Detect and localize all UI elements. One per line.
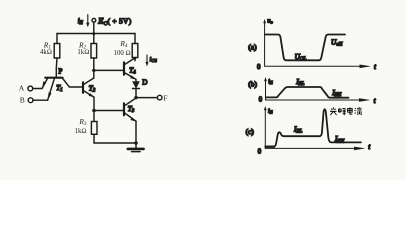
svg-text:iE: iE: [78, 17, 83, 26]
wire to T3 base: [94, 110, 123, 112]
svg-text:IEH: IEH: [331, 89, 341, 98]
svg-text:1kΩ: 1kΩ: [77, 49, 89, 56]
node EC supply terminal: [92, 18, 96, 33]
svg-text:A: A: [19, 84, 25, 93]
diode D: [133, 79, 140, 97]
transistor T1 multi-emitter: [42, 78, 69, 101]
svg-text:T2: T2: [89, 85, 96, 94]
resistor R2: [91, 34, 97, 71]
label R3 value 1k: [75, 117, 87, 135]
axis y panel a: [263, 19, 266, 66]
wire T2 emitter column: [93, 97, 95, 110]
input terminal B: [20, 96, 48, 105]
wire T3 emitter to ground: [135, 121, 137, 143]
svg-text:D: D: [142, 79, 147, 87]
svg-text:P: P: [58, 67, 62, 75]
svg-text:B: B: [20, 96, 25, 105]
svg-text:0: 0: [259, 97, 263, 104]
resistor R1: [54, 34, 60, 78]
svg-text:IEH: IEH: [334, 135, 344, 144]
char dian: [348, 107, 353, 114]
svg-text:R4: R4: [119, 39, 128, 49]
current arrow iC4: [145, 55, 148, 67]
wire EC terminal to rail: [93, 22, 95, 33]
svg-text:iE: iE: [268, 107, 273, 114]
transistor T4: [124, 58, 136, 80]
svg-text:0: 0: [258, 148, 262, 155]
svg-text:IEL: IEL: [295, 78, 304, 87]
initial low segment thick: [266, 145, 274, 147]
svg-text:T1: T1: [56, 84, 62, 93]
axis x panel c: [265, 147, 365, 151]
svg-text:R3: R3: [78, 117, 87, 127]
output terminal F: [157, 94, 167, 103]
axis x panel a: [265, 65, 371, 69]
svg-text:F: F: [163, 94, 167, 103]
junction rail-R2-EC: [92, 32, 95, 35]
label R2 value 1k: [77, 40, 89, 56]
svg-text:0: 0: [257, 64, 261, 71]
svg-text:100 Ω: 100 Ω: [114, 50, 131, 57]
svg-text:EC( + 5V): EC( + 5V): [97, 16, 132, 27]
input terminal A: [19, 84, 42, 93]
char feng: [339, 108, 346, 115]
char jian: [330, 107, 337, 115]
axis y panel c: [264, 106, 267, 148]
junction ground node: [134, 141, 138, 145]
svg-text:1kΩ: 1kΩ: [75, 128, 87, 135]
svg-text:(b): (b): [248, 79, 257, 88]
svg-text:T3: T3: [128, 105, 135, 114]
waveform iE curve panel b: [266, 87, 349, 98]
svg-text:UOL: UOL: [295, 53, 307, 62]
wire T2 collector column: [93, 70, 95, 78]
junction T2 emitter R3 T3 base: [92, 109, 96, 113]
current arrow iE: [86, 15, 89, 28]
label spike current chinese text: [330, 107, 362, 115]
char liu: [355, 107, 362, 115]
transistor T2: [83, 78, 94, 97]
svg-text:t: t: [374, 98, 377, 105]
waveform uo curve: [265, 35, 345, 61]
svg-text:t: t: [368, 144, 371, 151]
resistor R3: [91, 111, 97, 144]
svg-text:iC4: iC4: [150, 56, 158, 63]
ground: [128, 143, 144, 152]
transistor T3: [124, 98, 136, 122]
waveform iE curve panel c with spike: [266, 109, 361, 146]
axis x panel b: [266, 98, 371, 102]
svg-text:UoH: UoH: [331, 38, 343, 47]
svg-text:uo: uo: [267, 18, 273, 25]
label R4 value 100: [114, 39, 131, 57]
svg-text:t: t: [374, 64, 377, 71]
svg-text:iE: iE: [268, 78, 273, 85]
junction R2 T2 collector T4 base: [92, 69, 95, 72]
resistor R4: [132, 34, 138, 61]
svg-text:IEL: IEL: [293, 125, 302, 134]
svg-text:(a): (a): [248, 43, 257, 52]
wire to T4 base: [94, 69, 124, 71]
wire bottom to ground node: [94, 142, 136, 144]
svg-text:(c): (c): [246, 127, 255, 136]
label R1 value 4k: [40, 41, 52, 57]
axis y panel b: [264, 77, 267, 100]
junction D T3 collector output: [134, 96, 137, 99]
wire top power rail: [57, 33, 135, 35]
wire output F: [136, 97, 157, 99]
wire T1 collector to T2 base: [69, 86, 82, 88]
svg-text:4kΩ: 4kΩ: [40, 49, 52, 56]
svg-text:T4: T4: [129, 66, 136, 75]
